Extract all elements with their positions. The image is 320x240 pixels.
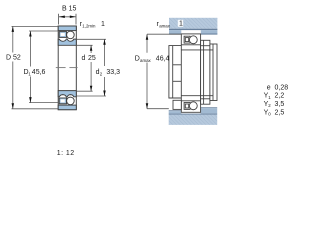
svg-text:2,5: 2,5 <box>275 109 285 116</box>
svg-text:0,28: 0,28 <box>275 84 289 91</box>
svg-text:3,5: 3,5 <box>275 101 285 108</box>
svg-text:33,3: 33,3 <box>106 69 120 76</box>
svg-text:25: 25 <box>88 55 96 62</box>
svg-text:1,2min: 1,2min <box>82 23 96 28</box>
svg-text:46,4: 46,4 <box>156 55 170 62</box>
svg-text:45,6: 45,6 <box>32 69 46 76</box>
svg-text:B 15: B 15 <box>62 6 77 13</box>
svg-text:amax: amax <box>159 23 171 28</box>
svg-text:amax: amax <box>140 58 152 63</box>
svg-text:2,2: 2,2 <box>275 93 285 100</box>
svg-text:d: d <box>82 55 86 62</box>
svg-text:1: 1 <box>101 21 105 28</box>
svg-text:1: 12: 1: 12 <box>57 150 75 157</box>
svg-text:1: 1 <box>179 21 183 28</box>
svg-text:e: e <box>267 84 271 91</box>
svg-text:D 52: D 52 <box>6 55 21 62</box>
